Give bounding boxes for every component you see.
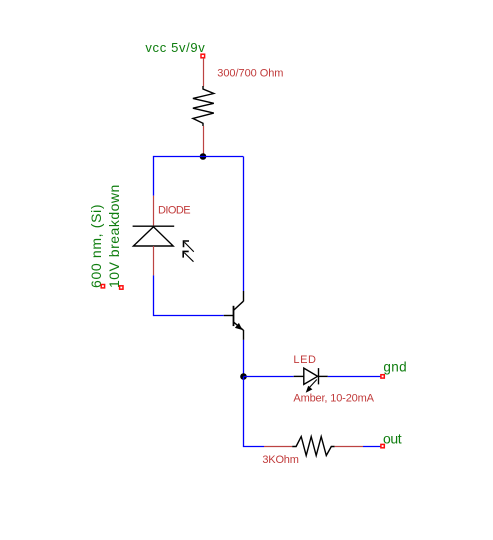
wire collector [243, 157, 245, 292]
wire node B down [243, 377, 245, 447]
svg-text:gnd: gnd [383, 360, 407, 375]
svg-text:LED: LED [293, 354, 316, 366]
transistor Q1 [224, 291, 244, 340]
diode D2 LED [294, 368, 328, 384]
resistor R2 3KOhm [292, 437, 334, 456]
wire out corner [243, 446, 264, 448]
wire diode anode [153, 246, 155, 275]
svg-text:DIODE: DIODE [158, 205, 190, 217]
wire top rail [154, 156, 244, 158]
port gnd [381, 375, 384, 378]
photodiode light arrow 2 [183, 251, 193, 261]
port 600nm [101, 285, 104, 288]
port out [381, 444, 384, 447]
svg-text:Amber, 10-20mA: Amber, 10-20mA [293, 393, 374, 405]
wire to R2 [264, 446, 292, 448]
wire left edge lower [153, 275, 155, 316]
wire LED to gnd [328, 376, 381, 378]
port vcc [201, 54, 205, 58]
svg-text:300/700 Ohm: 300/700 Ohm [217, 68, 283, 80]
svg-text:10V breakdown: 10V breakdown [106, 184, 122, 288]
wire emitter [243, 340, 245, 377]
wire left edge upper [153, 156, 155, 196]
svg-text:vcc 5v/9v: vcc 5v/9v [145, 40, 205, 55]
wire R1 to node A [203, 126, 205, 157]
photodiode light arrow 1 [184, 241, 194, 252]
node A junction dot [200, 153, 207, 160]
wire bottom rail to base [154, 315, 224, 317]
diode D1 photodiode [133, 226, 175, 246]
wire vcc to R1 [203, 58, 205, 87]
LED light arrow [306, 380, 317, 393]
svg-text:600 nm, (Si): 600 nm, (Si) [88, 204, 104, 288]
port 10V [120, 286, 123, 289]
resistor R1 300/700 Ohm [193, 86, 214, 126]
node B junction dot [240, 373, 247, 380]
wire out blue [363, 446, 381, 448]
svg-text:out: out [383, 431, 402, 447]
wire to diode cathode [153, 196, 155, 226]
wire R2 to out [335, 446, 363, 448]
wire node B to LED [244, 376, 294, 378]
svg-text:3KOhm: 3KOhm [262, 454, 298, 466]
